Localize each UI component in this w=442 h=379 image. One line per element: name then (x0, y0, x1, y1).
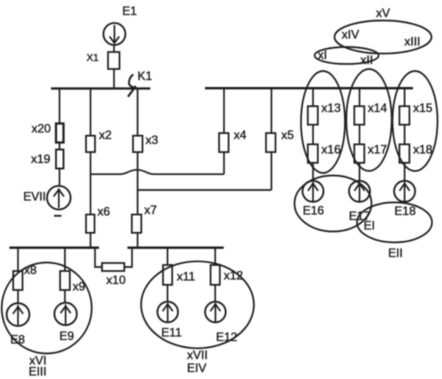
svg-text:EIV: EIV (187, 361, 206, 375)
svg-text:EIII: EIII (29, 365, 47, 379)
svg-text:x20: x20 (32, 122, 52, 136)
svg-text:x8: x8 (24, 263, 37, 277)
svg-text:x14: x14 (368, 101, 388, 115)
svg-text:E18: E18 (394, 204, 416, 218)
svg-text:x11: x11 (177, 270, 196, 284)
svg-text:X1: X1 (87, 53, 100, 64)
svg-text:x2: x2 (99, 128, 112, 142)
svg-text:K1: K1 (138, 69, 153, 83)
svg-text:EI: EI (364, 219, 375, 233)
svg-text:x3: x3 (146, 133, 159, 147)
svg-text:xIV: xIV (342, 28, 359, 42)
svg-text:xIII: xIII (404, 35, 420, 49)
svg-text:E9: E9 (59, 329, 74, 343)
svg-text:x15: x15 (413, 101, 433, 115)
svg-text:E11: E11 (161, 326, 182, 340)
svg-text:x10: x10 (106, 273, 126, 287)
svg-text:x19: x19 (31, 152, 51, 166)
svg-text:E12: E12 (216, 330, 238, 344)
svg-text:E8: E8 (10, 333, 25, 347)
svg-text:x5: x5 (281, 128, 294, 142)
svg-text:x4: x4 (234, 128, 247, 142)
svg-text:xVII: xVII (187, 348, 208, 362)
svg-text:x16: x16 (321, 143, 341, 157)
svg-text:x12: x12 (224, 269, 244, 283)
svg-text:x13: x13 (321, 101, 341, 115)
svg-text:xV: xV (376, 6, 390, 20)
svg-text:xI: xI (318, 48, 327, 62)
svg-text:E16: E16 (303, 204, 325, 218)
svg-text:xII: xII (360, 53, 373, 67)
svg-text:x9: x9 (73, 280, 86, 294)
svg-text:x6: x6 (97, 205, 110, 219)
svg-text:x17: x17 (368, 143, 388, 157)
svg-text:x18: x18 (413, 143, 433, 157)
svg-text:EII: EII (388, 246, 403, 260)
svg-text:x7: x7 (144, 203, 157, 217)
svg-text:E1: E1 (122, 4, 137, 18)
svg-text:EVII: EVII (23, 190, 46, 204)
